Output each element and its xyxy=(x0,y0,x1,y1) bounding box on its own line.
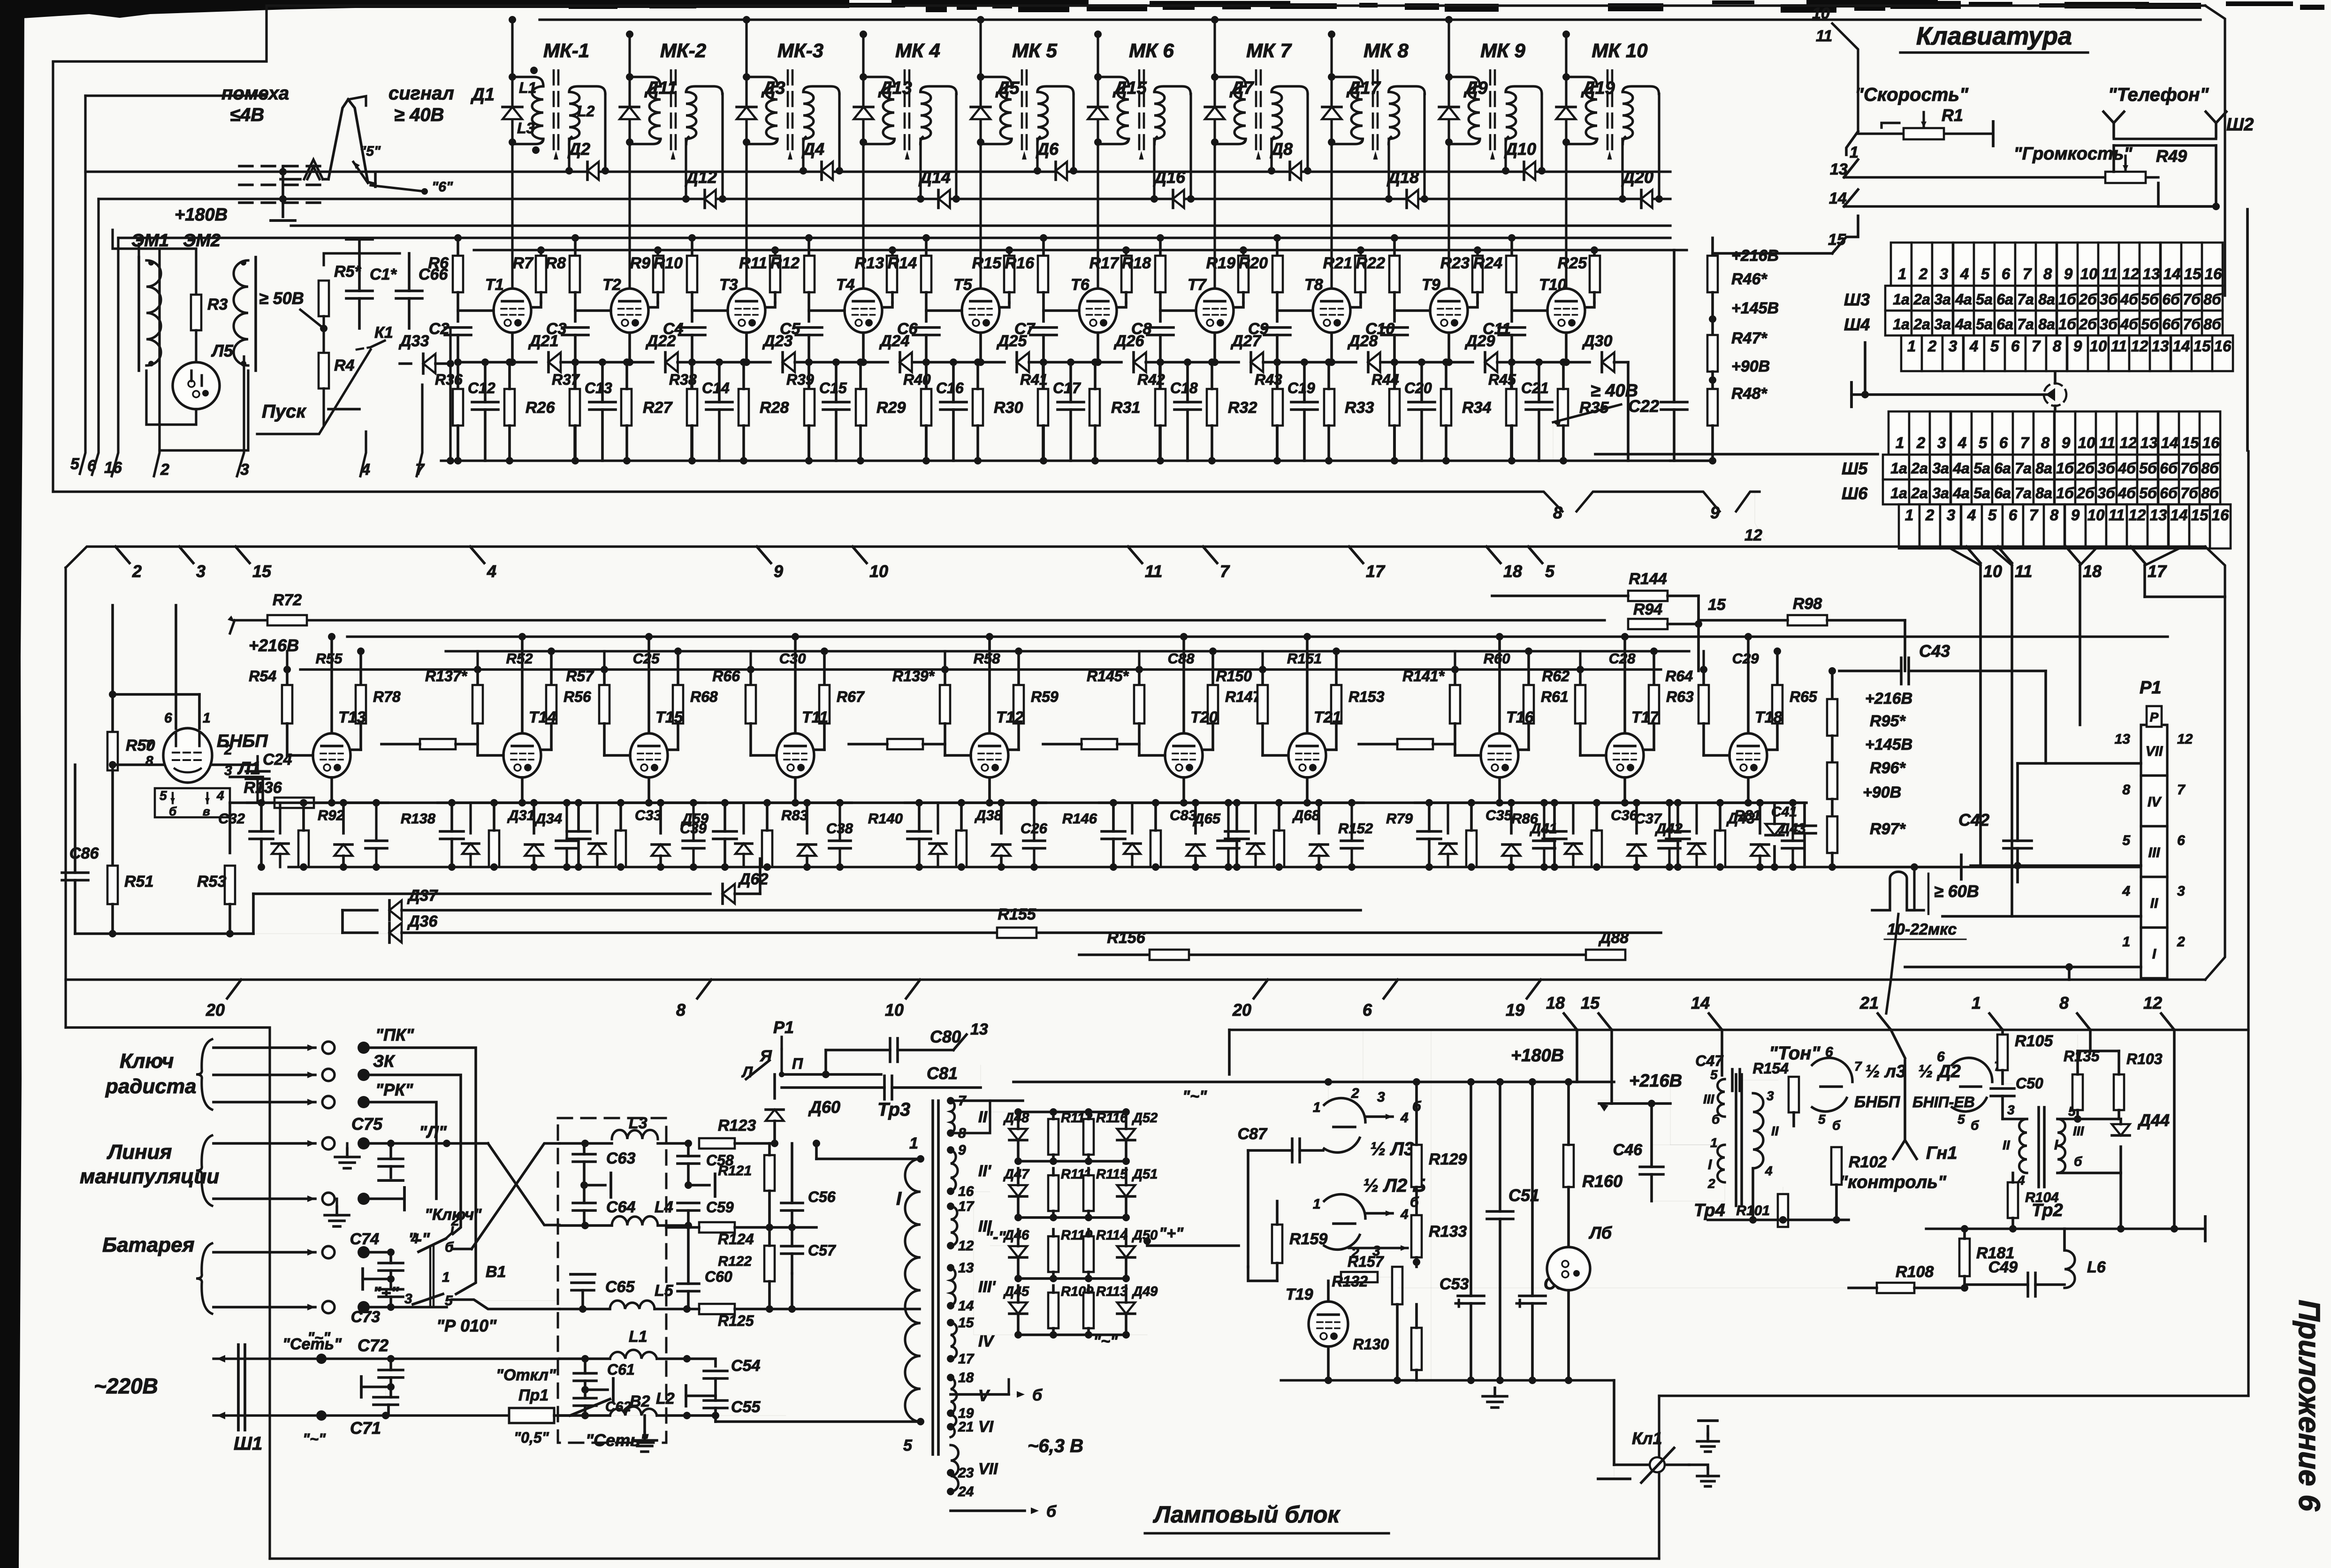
wire xyxy=(1327,1281,1330,1302)
svg-text:R7: R7 xyxy=(513,254,534,272)
svg-text:14: 14 xyxy=(2171,506,2188,524)
core xyxy=(1021,70,1023,155)
cell T7 xyxy=(1159,238,1162,256)
svg-text:10: 10 xyxy=(2090,337,2107,355)
svg-text:R11: R11 xyxy=(739,254,767,272)
svg-text:"РК": "РК" xyxy=(375,1080,413,1099)
svg-text:R66: R66 xyxy=(712,668,740,685)
svg-text:10: 10 xyxy=(1983,562,2002,581)
resistor R159 xyxy=(1272,1225,1282,1263)
wire xyxy=(1623,777,1626,803)
core xyxy=(1607,70,1609,155)
node 17 xyxy=(2131,547,2145,563)
svg-text:16: 16 xyxy=(2205,265,2222,282)
svg-text:R133: R133 xyxy=(1429,1223,1467,1241)
wire cross X2b xyxy=(472,1143,559,1249)
wire xyxy=(229,817,231,853)
diode Д18 xyxy=(1407,190,1418,208)
terminal input xyxy=(213,1073,315,1076)
wire xyxy=(1891,1030,1905,1058)
svg-text:МК 10: МК 10 xyxy=(1592,39,1647,61)
svg-text:7б: 7б xyxy=(2183,316,2201,333)
svg-text:5: 5 xyxy=(1981,265,1990,282)
electromagnet EM2 xyxy=(254,257,257,371)
svg-text:II': II' xyxy=(978,1162,992,1180)
winding secondary xyxy=(951,1101,955,1133)
wire bottom rail xyxy=(441,459,1670,462)
svg-text:18: 18 xyxy=(2083,562,2102,581)
resistor link xyxy=(1397,739,1433,749)
capacitor C14 xyxy=(706,401,732,403)
diode D25 xyxy=(1017,352,1029,372)
resistor R37 xyxy=(570,389,580,426)
svg-text:8: 8 xyxy=(2122,782,2130,798)
svg-text:R36: R36 xyxy=(435,371,463,388)
svg-text:Д3: Д3 xyxy=(761,78,785,98)
wire xyxy=(687,1414,716,1417)
svg-text:6: 6 xyxy=(164,710,172,726)
resistor lower xyxy=(489,830,499,867)
svg-text:13: 13 xyxy=(2115,731,2131,747)
svg-text:Д7: Д7 xyxy=(1229,78,1254,98)
cell T3 xyxy=(691,238,693,256)
wire tube links xyxy=(1044,309,1079,312)
svg-text:Д88: Д88 xyxy=(1598,929,1629,947)
svg-text:17: 17 xyxy=(1366,562,1386,581)
diode Д6 xyxy=(1056,162,1067,180)
svg-text:10: 10 xyxy=(869,562,888,581)
diode Д12 xyxy=(705,190,716,208)
svg-text:13: 13 xyxy=(2143,265,2160,282)
svg-text:5а: 5а xyxy=(1976,291,1993,308)
wire mid rail seg xyxy=(247,801,388,804)
capacitor C75 xyxy=(379,1157,403,1160)
svg-text:R29: R29 xyxy=(876,399,906,417)
wire xyxy=(573,362,576,461)
capacitor C1* xyxy=(346,289,373,292)
wire xyxy=(925,335,928,461)
svg-text:R72: R72 xyxy=(273,591,302,609)
core xyxy=(1489,70,1492,155)
svg-text:4а: 4а xyxy=(1952,485,1970,502)
svg-text:R37: R37 xyxy=(552,371,580,388)
resistor lower xyxy=(1150,830,1161,867)
svg-text:радиста: радиста xyxy=(105,1075,197,1098)
svg-text:15: 15 xyxy=(2182,434,2199,451)
wire rail L4 xyxy=(559,1224,612,1227)
svg-text:R94: R94 xyxy=(1633,601,1662,618)
svg-text:C2: C2 xyxy=(429,320,449,338)
svg-text:C11: C11 xyxy=(1483,320,1511,338)
svg-text:4а: 4а xyxy=(1955,316,1972,333)
inductor L3 xyxy=(612,1130,658,1139)
wire tube links xyxy=(1394,309,1430,312)
capacitor C47 xyxy=(1731,1069,1734,1091)
svg-text:1: 1 xyxy=(1972,993,1981,1012)
wire B1 out lower xyxy=(452,1300,559,1309)
capacitor C80 xyxy=(889,1038,891,1062)
wire xyxy=(815,1143,818,1159)
diode Д19 xyxy=(1556,107,1576,119)
svg-text:R4: R4 xyxy=(334,357,355,374)
svg-text:Д68: Д68 xyxy=(1292,807,1320,823)
winding III xyxy=(1717,1079,1725,1117)
svg-text:7а: 7а xyxy=(2017,291,2034,308)
wire xyxy=(2001,1096,2004,1119)
relay contact II xyxy=(2141,877,2167,928)
capacitor Д65 xyxy=(1225,830,1249,833)
wire 220 line1 xyxy=(213,1357,559,1360)
wire ground link xyxy=(1851,393,2052,396)
svg-text:16: 16 xyxy=(104,459,122,477)
resistor R30 xyxy=(973,389,983,426)
wire xyxy=(111,904,114,934)
terminal xyxy=(688,1184,709,1187)
svg-text:R125: R125 xyxy=(718,1312,754,1329)
svg-text:Д18: Д18 xyxy=(1386,167,1419,187)
svg-text:Л5: Л5 xyxy=(211,341,234,360)
wire xyxy=(1431,1030,1432,1380)
wire xyxy=(1155,867,1156,868)
wire xyxy=(925,362,928,461)
svg-text:8: 8 xyxy=(676,1000,686,1020)
wire xyxy=(1306,777,1309,803)
svg-text:МК 4: МК 4 xyxy=(895,39,940,61)
terminal input xyxy=(213,1251,315,1254)
wire xyxy=(1713,252,1832,255)
wire xyxy=(1623,637,1626,733)
svg-text:R40: R40 xyxy=(903,371,931,388)
wire xyxy=(782,1073,881,1076)
transistor T16 xyxy=(1481,733,1518,777)
svg-text:+90В: +90В xyxy=(1731,358,1770,375)
svg-text:+: + xyxy=(1454,1294,1463,1313)
wire xyxy=(52,62,54,492)
svg-text:R64: R64 xyxy=(1665,668,1693,685)
core xyxy=(787,70,789,155)
diode lower xyxy=(525,845,543,856)
terminal xyxy=(1699,1419,1717,1422)
connector Ш3/Ш4 table xyxy=(1891,243,2223,286)
wire xyxy=(1454,651,1456,670)
svg-text:3б: 3б xyxy=(2097,485,2116,502)
wire xyxy=(1596,867,1597,868)
svg-text:C17: C17 xyxy=(1053,380,1082,396)
diode cell xyxy=(1124,844,1140,854)
wire xyxy=(1159,335,1162,461)
svg-text:6: 6 xyxy=(1999,434,2008,451)
wire xyxy=(1562,426,1565,461)
cell T6 xyxy=(1042,238,1045,256)
capacitor C62 xyxy=(574,1397,596,1400)
cell T1 xyxy=(457,238,459,256)
wire xyxy=(1551,863,1558,871)
brace xyxy=(196,1039,212,1110)
capacitor Д34 xyxy=(567,830,590,833)
core xyxy=(1372,70,1374,155)
svg-text:13: 13 xyxy=(970,1020,988,1038)
svg-text:"~": "~" xyxy=(1182,1088,1207,1105)
relay contact III xyxy=(2141,826,2167,877)
diode lower xyxy=(1502,845,1520,856)
svg-text:"Телефон": "Телефон" xyxy=(2108,84,2209,105)
svg-text:8: 8 xyxy=(2053,337,2062,355)
capacitor C58 xyxy=(678,1155,699,1157)
svg-text:2б: 2б xyxy=(2079,316,2097,333)
terminal xyxy=(379,1179,403,1182)
svg-text:L3: L3 xyxy=(517,120,535,137)
winding III xyxy=(2057,1119,2065,1173)
wire xyxy=(160,371,248,450)
svg-text:R62: R62 xyxy=(1542,668,1569,685)
svg-text:2: 2 xyxy=(160,461,169,479)
svg-text:R18: R18 xyxy=(1122,254,1151,272)
wire xyxy=(1471,867,1472,868)
wire xyxy=(1017,723,1020,750)
wire xyxy=(1510,426,1513,461)
capacitor R86 xyxy=(1543,830,1566,833)
svg-text:C60: C60 xyxy=(705,1268,732,1285)
capacitor C5 xyxy=(796,326,822,329)
wire xyxy=(1155,867,1156,868)
svg-text:в: в xyxy=(203,804,210,818)
svg-text:T8: T8 xyxy=(1304,276,1323,294)
svg-text:C25: C25 xyxy=(633,650,660,667)
wire xyxy=(1276,426,1279,461)
wire xyxy=(2001,1030,2004,1035)
svg-text:13: 13 xyxy=(2141,434,2158,451)
wire xyxy=(1658,1396,1660,1559)
svg-text:8б: 8б xyxy=(2203,291,2222,308)
wire xyxy=(685,139,687,199)
cell T18 xyxy=(1702,670,1705,685)
wire xyxy=(979,333,982,362)
wire xyxy=(446,650,1689,652)
diode cell xyxy=(929,844,946,854)
cell T5 xyxy=(925,238,928,256)
resistor R32 xyxy=(1207,389,1217,426)
terminal xyxy=(1960,855,1963,879)
wire xyxy=(1247,1150,1249,1267)
svg-text:C10: C10 xyxy=(1365,320,1394,338)
winding secondary xyxy=(951,1150,958,1191)
svg-text:сигнал: сигнал xyxy=(388,83,454,104)
capacitor cell xyxy=(556,839,578,842)
svg-text:C19: C19 xyxy=(1287,380,1315,396)
svg-text:3а: 3а xyxy=(1932,460,1949,477)
wire xyxy=(2114,137,2216,140)
svg-text:C56: C56 xyxy=(808,1188,836,1205)
wire bottom rail T19 area xyxy=(1281,1379,1614,1381)
svg-text:6а: 6а xyxy=(1996,316,2013,333)
wire xyxy=(1330,333,1333,362)
terminal xyxy=(370,1197,404,1200)
svg-text:Батарея: Батарея xyxy=(102,1233,195,1256)
svg-text:3: 3 xyxy=(1937,434,1946,451)
wire xyxy=(574,292,577,321)
svg-text:C18: C18 xyxy=(1170,380,1198,396)
svg-text:C30: C30 xyxy=(779,650,806,667)
connector Sh1 bars xyxy=(237,1345,240,1430)
tube half L2 xyxy=(1324,1195,1365,1218)
svg-text:5: 5 xyxy=(1710,1067,1718,1082)
capacitor C50 xyxy=(1991,1087,2014,1090)
svg-text:1а: 1а xyxy=(1890,485,1907,502)
resistor R124 xyxy=(699,1222,735,1233)
svg-text:Лб: Лб xyxy=(1588,1223,1613,1242)
svg-text:6: 6 xyxy=(2011,337,2020,355)
wire xyxy=(1567,1290,1570,1380)
diode Д3 xyxy=(737,107,756,119)
svg-text:Д20: Д20 xyxy=(1621,167,1653,187)
svg-text:Д2: Д2 xyxy=(567,139,590,159)
resistor lower xyxy=(298,830,309,867)
transformer Tr2 xyxy=(2037,1107,2040,1187)
wire xyxy=(568,139,570,171)
svg-text:C65: C65 xyxy=(605,1278,635,1296)
wire xyxy=(2078,1050,2119,1052)
capacitor C51 xyxy=(1487,1210,1513,1213)
wire xyxy=(328,408,359,411)
wire xyxy=(990,1101,1018,1112)
inductor winding left xyxy=(1449,77,1480,86)
ground xyxy=(643,1432,646,1440)
wire xyxy=(1125,292,1127,303)
svg-text:4: 4 xyxy=(1960,265,1969,282)
wire xyxy=(229,803,231,817)
svg-text:"Откл": "Откл" xyxy=(496,1366,556,1384)
winding II xyxy=(1753,1093,1763,1168)
svg-text:Д59: Д59 xyxy=(680,810,709,827)
brace xyxy=(196,1243,212,1314)
wire xyxy=(1702,651,1705,670)
svg-text:8: 8 xyxy=(2041,434,2050,451)
svg-text:Ш3: Ш3 xyxy=(1844,290,1870,309)
wire xyxy=(1328,1082,1329,1105)
cell T13 xyxy=(286,670,289,685)
svg-text:8а: 8а xyxy=(2035,485,2052,502)
wire speed line xyxy=(1858,132,1993,135)
svg-text:R58: R58 xyxy=(974,650,1001,667)
svg-text:1: 1 xyxy=(203,710,211,726)
wire xyxy=(1147,1244,1239,1247)
capacitor C6 xyxy=(913,326,939,329)
node 20 xyxy=(1254,980,1268,998)
terminal input xyxy=(213,1101,315,1104)
inductor winding right xyxy=(803,137,806,144)
svg-text:R21: R21 xyxy=(1323,254,1352,272)
wire xyxy=(767,867,768,868)
terminal xyxy=(363,1278,391,1280)
svg-text:R150: R150 xyxy=(1216,668,1252,685)
svg-text:б: б xyxy=(1971,1118,1979,1133)
node 20 xyxy=(227,980,241,998)
svg-text:Д47: Д47 xyxy=(1003,1167,1030,1182)
svg-text:C62: C62 xyxy=(605,1399,631,1415)
svg-text:R78: R78 xyxy=(373,688,401,705)
cell T2 xyxy=(574,238,577,256)
wire xyxy=(64,980,67,1028)
wire left frame xyxy=(269,1030,270,1545)
svg-text:C57: C57 xyxy=(808,1242,837,1259)
wire xyxy=(2246,209,2249,450)
svg-text:Д1: Д1 xyxy=(470,85,495,105)
svg-text:8: 8 xyxy=(2050,506,2059,524)
node 19 xyxy=(1527,980,1541,998)
svg-text:6: 6 xyxy=(2009,506,2018,524)
svg-text:R24: R24 xyxy=(1473,254,1502,272)
wire xyxy=(1658,94,1660,199)
svg-text:R154: R154 xyxy=(1753,1060,1789,1077)
svg-text:R79: R79 xyxy=(1386,810,1413,827)
svg-text:R55: R55 xyxy=(316,650,343,667)
transistor T13 xyxy=(313,733,350,777)
diode Д36 xyxy=(389,923,402,943)
transistor T2 xyxy=(611,289,648,333)
terminal xyxy=(1850,382,1853,407)
svg-text:7а: 7а xyxy=(2017,316,2034,333)
svg-text:15: 15 xyxy=(1828,231,1846,249)
diode Д47 xyxy=(1009,1185,1027,1196)
svg-text:11: 11 xyxy=(2099,434,2115,451)
svg-text:7: 7 xyxy=(2177,782,2186,798)
svg-text:C13: C13 xyxy=(585,380,612,396)
node 2 xyxy=(115,547,129,563)
svg-text:ЗК: ЗК xyxy=(373,1051,396,1071)
svg-text:7: 7 xyxy=(2029,506,2039,524)
wire xyxy=(1306,94,1309,171)
svg-text:2: 2 xyxy=(1925,506,1935,524)
inductor winding right xyxy=(1155,137,1157,144)
inductor L2 xyxy=(610,1407,657,1416)
transistor T6 xyxy=(1079,289,1117,333)
wire xyxy=(1094,426,1097,461)
wire xyxy=(300,668,1661,670)
lamp L6 xyxy=(1547,1247,1590,1290)
svg-text:5б: 5б xyxy=(2139,485,2157,502)
wire xyxy=(1659,1394,2248,1397)
wire xyxy=(1097,34,1099,289)
transistor T21 xyxy=(1288,733,1326,777)
svg-text:C37: C37 xyxy=(1635,810,1662,827)
wire xyxy=(742,426,745,461)
diode D43 xyxy=(1766,824,1783,835)
svg-text:13: 13 xyxy=(2150,506,2167,524)
resistor R101 xyxy=(1778,1194,1788,1227)
wire rail L3 xyxy=(559,1142,612,1145)
svg-text:R141*: R141* xyxy=(1402,668,1445,685)
svg-text:5: 5 xyxy=(1958,1112,1965,1127)
wire xyxy=(146,371,196,425)
svg-text:"Р 010": "Р 010" xyxy=(436,1316,497,1335)
svg-text:12: 12 xyxy=(958,1238,974,1254)
resistor R102 xyxy=(1831,1147,1842,1185)
svg-text:R42: R42 xyxy=(1137,371,1165,388)
node 8 xyxy=(2077,1013,2090,1030)
svg-text:~220В: ~220В xyxy=(94,1374,158,1398)
wire xyxy=(75,933,934,934)
svg-text:Д34: Д34 xyxy=(534,810,562,827)
svg-text:R51: R51 xyxy=(124,873,153,891)
wire arrow R133 xyxy=(1349,1247,1408,1249)
svg-text:10: 10 xyxy=(885,1000,904,1020)
wire xyxy=(1621,139,1623,199)
svg-text:R102: R102 xyxy=(1849,1153,1887,1171)
svg-text:C87: C87 xyxy=(1238,1125,1268,1143)
svg-text:C53: C53 xyxy=(1440,1275,1469,1293)
svg-text:8: 8 xyxy=(1553,503,1562,522)
svg-text:8: 8 xyxy=(2043,265,2052,282)
